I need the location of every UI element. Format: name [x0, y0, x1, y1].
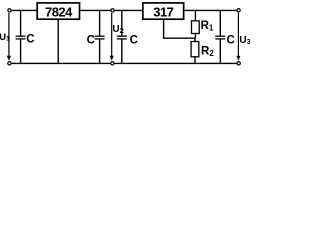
voltage arrow U3	[236, 13, 251, 61]
voltage arrow U2	[110, 13, 124, 61]
svg-text:C: C	[130, 35, 138, 47]
capacitor C4	[215, 10, 235, 63]
terminal top-middle	[111, 9, 114, 12]
wire top rail segment 2	[80, 9, 111, 11]
terminal top-left	[8, 9, 11, 12]
wire bottom rail segment 1	[12, 62, 111, 64]
capacitor C3	[117, 10, 138, 63]
wire bottom rail segment 2	[115, 62, 237, 64]
terminal top-right	[237, 9, 240, 12]
svg-text:C: C	[227, 35, 235, 47]
resistor R2	[191, 38, 214, 63]
voltage regulator IC 7824	[37, 3, 79, 20]
wire 7824 GND pin	[57, 19, 59, 63]
svg-text:317: 317	[153, 4, 173, 19]
terminal bottom-middle	[111, 62, 114, 65]
svg-text:C: C	[87, 35, 95, 47]
svg-text:U3: U3	[239, 35, 250, 46]
wire top rail segment 4	[184, 9, 237, 11]
svg-text:C: C	[26, 34, 34, 46]
terminal bottom-left	[8, 62, 11, 65]
wire top rail segment 3	[115, 9, 143, 11]
resistor R1	[192, 10, 214, 38]
svg-text:7824: 7824	[45, 4, 73, 19]
wire 317 ADJ pin	[164, 19, 196, 38]
capacitor C2	[87, 10, 105, 63]
terminal bottom-right	[237, 62, 240, 65]
voltage regulator IC 317	[143, 3, 184, 20]
wire top rail segment 1	[12, 9, 37, 11]
voltage arrow U1	[0, 13, 11, 61]
capacitor C1	[16, 10, 35, 63]
